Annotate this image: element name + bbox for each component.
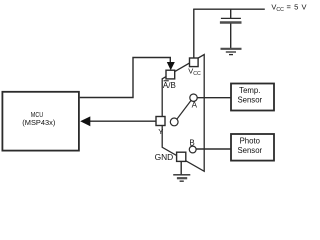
wire MCU to A/B select <box>80 58 171 98</box>
svg-text:(MSP43x): (MSP43x) <box>22 118 55 127</box>
svg-text:Sensor: Sensor <box>237 146 262 155</box>
arrowhead down into A/B pin <box>167 62 175 70</box>
ground (mux) <box>173 174 190 176</box>
svg-text:Photo: Photo <box>240 137 261 146</box>
svg-text:VCC = 5 V: VCC = 5 V <box>271 3 307 13</box>
svg-text:GND: GND <box>155 152 174 162</box>
svg-text:A/B: A/B <box>163 81 176 90</box>
svg-text:A: A <box>192 101 198 110</box>
node B contact <box>189 146 196 153</box>
MCU U1 <box>2 92 79 151</box>
svg-text:Y: Y <box>158 127 163 136</box>
pin Y square <box>156 117 165 126</box>
wire A to Temp. Sensor <box>197 97 231 99</box>
Temp. Sensor block <box>231 84 274 111</box>
wire Vcc rail <box>193 8 265 10</box>
wire B to Photo Sensor <box>196 148 231 150</box>
pin A/B square <box>166 70 175 79</box>
Photo Sensor block <box>231 134 274 161</box>
pin GND square <box>177 152 186 161</box>
capacitor C1 <box>230 9 232 18</box>
arrowhead left into MCU <box>80 116 90 126</box>
switch arm <box>177 101 191 120</box>
wire Y to MCU <box>89 120 156 122</box>
ground (capacitor) <box>221 48 242 50</box>
pin Vcc square <box>190 58 199 67</box>
wire Vcc pin up <box>193 9 195 58</box>
wire GND stem <box>180 161 182 174</box>
mux trapezoid U2 <box>162 55 204 172</box>
node A contact <box>190 94 197 101</box>
svg-text:B: B <box>189 138 194 147</box>
svg-text:Temp.: Temp. <box>239 86 260 95</box>
svg-text:Sensor: Sensor <box>237 96 262 105</box>
switch pole node <box>170 118 178 126</box>
